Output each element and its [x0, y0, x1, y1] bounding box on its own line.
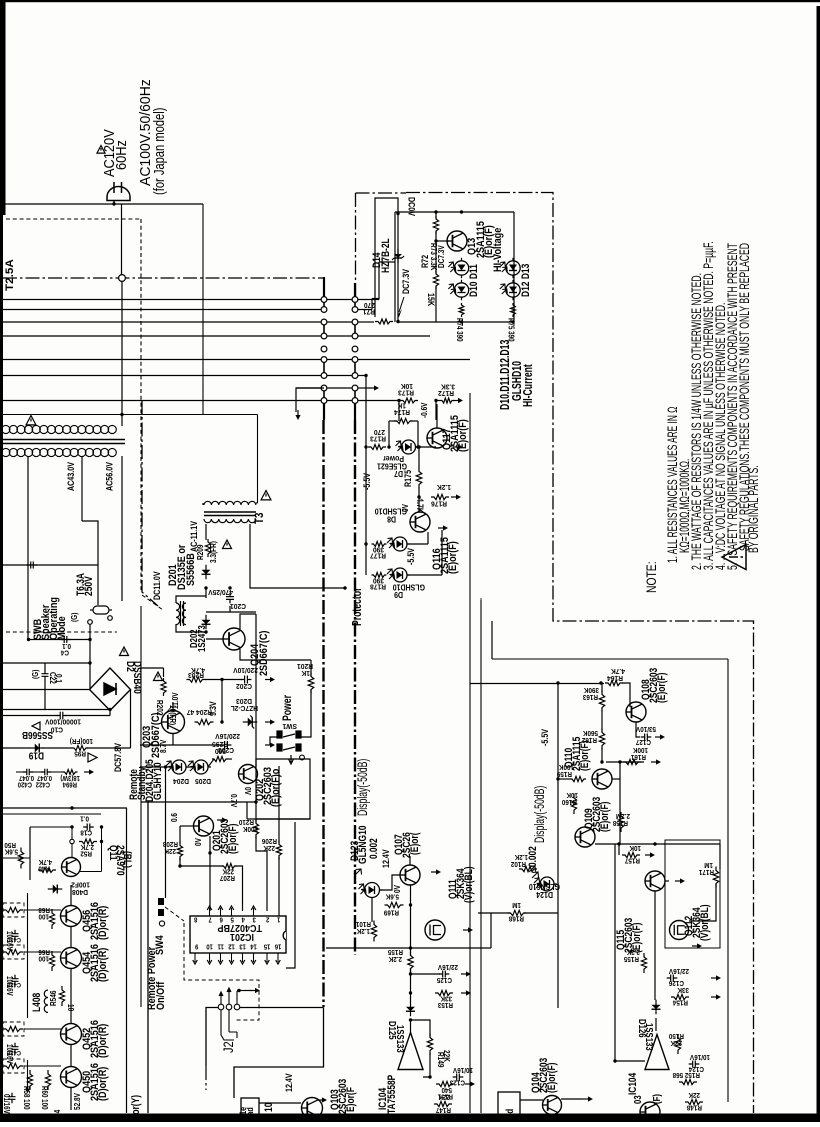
transistor Q201 2SC2603	[194, 816, 214, 836]
svg-text:R152 568: R152 568	[672, 1071, 700, 1078]
transformer T1 primary winding	[2, 425, 117, 433]
svg-text:100: 100	[38, 954, 49, 961]
wire q col vertical a	[70, 885, 72, 906]
capacitor C422 0.047	[41, 769, 51, 776]
callout arrowhead	[398, 309, 403, 317]
transformer T3 core2	[204, 515, 256, 517]
wire dashed box r1	[3, 903, 24, 917]
wire r168 row b	[524, 912, 558, 914]
resistor R155 2.2K	[641, 953, 646, 973]
switch SW4 contacts	[158, 898, 165, 926]
svg-text:D408: D408	[72, 888, 88, 897]
svg-text:250V: 250V	[83, 576, 95, 596]
bus wire right r9	[358, 400, 398, 402]
svg-text:R150: R150	[669, 1032, 684, 1039]
resistor R168 1M	[508, 910, 527, 915]
svg-text:R206: R206	[262, 837, 277, 844]
svg-text:0.7V: 0.7V	[229, 794, 239, 807]
svg-text:390K: 390K	[584, 686, 599, 693]
wire q109 emitter row	[595, 843, 720, 845]
bus wire mid 3	[327, 335, 352, 337]
resistor R208 22K	[177, 842, 182, 861]
connector col2 stub bottom	[354, 404, 356, 421]
IC201 pin arrow bottom 13	[240, 960, 245, 964]
connector pad col2 row3	[352, 319, 358, 325]
block box B2 load	[498, 1092, 520, 1122]
wire x470 vertical	[469, 393, 471, 1113]
svg-text:R694: R694	[62, 780, 77, 787]
bus wire mid 6	[327, 387, 352, 389]
wire chassis dash-dot	[3, 277, 324, 279]
svg-text:R147: R147	[436, 1106, 451, 1113]
svg-text:6: 6	[219, 915, 223, 923]
IC201 pin arrow bottom 16	[276, 960, 281, 964]
connector pad col1 row4	[321, 333, 327, 339]
svg-text:15: 15	[263, 942, 270, 950]
terminal C202	[265, 677, 275, 682]
wire sec AC56 drop	[121, 456, 123, 601]
wire dashed speaker mode	[6, 631, 117, 633]
wire sec AC43 jog	[82, 521, 98, 605]
wire R161 row	[606, 761, 644, 763]
LED D8 GLSHD10	[390, 537, 410, 551]
boundary dash-dot left col	[322, 420, 324, 1007]
svg-text:D126: D126	[637, 1019, 648, 1038]
wire LED box right	[513, 212, 515, 322]
transistor Q109 2SC2603	[575, 827, 595, 847]
svg-text:2: 2	[266, 915, 270, 923]
svg-text:2.2M: 2.2M	[616, 812, 630, 819]
inductor L408	[44, 990, 48, 1013]
svg-text:D7: D7	[394, 469, 403, 479]
svg-text:(E)or(: (E)or(	[409, 832, 421, 855]
terminal c126	[711, 975, 721, 980]
wire bridge right drop	[130, 690, 132, 749]
wire row 715 a	[3, 715, 58, 717]
LED D204	[169, 760, 189, 774]
junction box bottom right	[511, 320, 514, 323]
connector col1 stub bottom	[323, 404, 325, 421]
wire q11 right rail	[101, 827, 103, 872]
svg-text:100F2: 100F2	[71, 880, 90, 889]
resistor R204 47	[195, 719, 214, 724]
connector pad col2 row9	[352, 398, 358, 404]
resistor R177 390	[372, 542, 387, 547]
svg-text:100(FR): 100(FR)	[70, 737, 93, 744]
connector col2 link r3-r4	[354, 325, 356, 333]
svg-text:DC0V: DC0V	[406, 197, 416, 217]
transistor Q454 2SA1516	[61, 948, 82, 969]
resistor R95 100FR	[72, 746, 88, 751]
junction R176 node	[417, 495, 420, 498]
wire row 565	[3, 564, 98, 566]
terminal q115 emitter	[675, 878, 685, 883]
bus wire left 4	[3, 335, 321, 337]
transistor Q456 2SA1516	[61, 906, 82, 927]
wire T1 feed drop	[121, 415, 123, 427]
block box B1 load	[241, 1098, 259, 1122]
junction x620 r161	[618, 760, 621, 763]
LED D124 GLSN610	[537, 877, 557, 891]
LED D9 GLSHD10	[390, 568, 410, 582]
LED D123 GL5NG10	[362, 883, 383, 898]
wire r210 col a	[255, 802, 257, 822]
svg-text:540: 540	[441, 1086, 452, 1093]
wire c22 col a	[44, 663, 46, 670]
connector col2 link r6-r7	[354, 363, 356, 373]
svg-text:5: 5	[230, 915, 234, 923]
transformer T201 right winding	[182, 603, 186, 625]
bus wire mid 1	[327, 299, 352, 301]
wire Q204 collector	[240, 614, 256, 629]
resistor R101 1.2K	[371, 921, 376, 942]
wire sec AC43 drop	[81, 456, 83, 521]
junction box top mid	[460, 210, 463, 213]
wire x491 vertical	[490, 913, 492, 948]
svg-text:C428: C428	[7, 981, 21, 988]
wire R164 to Q108 base	[622, 683, 630, 707]
wire row 802	[141, 801, 256, 803]
svg-text:TA75558P: TA75558P	[386, 1074, 398, 1114]
wire Q116 base drop	[427, 532, 429, 544]
transistor Q116 2SA1115	[410, 512, 430, 532]
terminal r157	[645, 852, 655, 857]
terminal q201 collector	[217, 817, 227, 822]
svg-text:DC7.3V: DC7.3V	[436, 245, 446, 268]
svg-text:Display(-50dB): Display(-50dB)	[533, 786, 547, 843]
connector pad col2 row6	[352, 357, 358, 363]
svg-text:C202: C202	[236, 682, 252, 691]
wire LED chain	[186, 766, 194, 768]
svg-text:15K: 15K	[426, 293, 436, 306]
wire r210 to pin2	[256, 836, 267, 911]
wire q201 base col	[179, 826, 181, 843]
transformer T3 secondary	[204, 519, 256, 523]
junction R173 node	[434, 399, 437, 402]
wire bridge bottom drop	[109, 711, 111, 716]
connector pad col1 row3	[321, 319, 327, 325]
transformer T3 primary	[204, 501, 256, 505]
svg-text:R153: R153	[438, 1001, 453, 1008]
svg-text:R173: R173	[370, 434, 386, 443]
wire Q204 emitter	[240, 649, 311, 660]
arrow down q202	[289, 755, 294, 764]
svg-text:13: 13	[239, 942, 246, 950]
bus wire mid 5	[327, 375, 352, 377]
wire row 640	[28, 639, 90, 641]
wire q11 base col	[71, 827, 73, 858]
connector pad col2 row7	[352, 373, 358, 379]
svg-text:22K: 22K	[438, 1093, 450, 1100]
resistor R73 3.3K	[433, 216, 438, 234]
wire q107 up	[409, 856, 411, 865]
capacitor C10 marker	[56, 712, 67, 720]
capacitor C428	[12, 975, 19, 986]
svg-text:11: 11	[217, 942, 224, 950]
svg-text:1.2K: 1.2K	[515, 853, 528, 860]
svg-text:R210: R210	[239, 818, 254, 825]
boundary dash-dot T3 area	[142, 400, 158, 606]
junction D7 left	[387, 445, 390, 448]
wire boundary top edge start	[356, 192, 407, 194]
svg-text:01/16V: 01/16V	[2, 1094, 11, 1114]
svg-text:53/10V: 53/10V	[636, 725, 656, 732]
wire q col vertical c	[70, 969, 72, 1024]
svg-text:(for Japan model): (for Japan model)	[151, 108, 168, 195]
wire q201 emitter drop	[209, 836, 211, 911]
svg-text:(V)or(BL): (V)or(BL)	[463, 866, 475, 903]
capacitor C430	[12, 930, 19, 941]
svg-text:R177: R177	[370, 551, 386, 560]
resistor R210 100K	[253, 820, 258, 839]
resistor R40 4.7K	[38, 868, 56, 873]
wire row 814	[3, 813, 101, 815]
wire D14 to R71 node	[397, 266, 399, 322]
wire d125 to r149	[411, 1020, 431, 1036]
wire sw1 to sw4	[165, 767, 167, 898]
svg-text:DSSB40: DSSB40	[131, 661, 143, 694]
resistor R171 1M	[713, 867, 718, 888]
IC201 pin stub top x231.5	[231, 908, 233, 916]
capacitor C18 0.1	[83, 824, 94, 831]
wire c22 col b	[44, 680, 46, 710]
connector pad col2 row5	[352, 346, 358, 352]
svg-text:-5.5V: -5.5V	[362, 472, 372, 490]
resistor R164 4.7K	[605, 680, 623, 685]
wire dashed box r2	[3, 945, 24, 959]
svg-text:(E)or(F): (E)or(F)	[227, 824, 239, 854]
terminal Q116 emitter	[438, 525, 448, 530]
svg-text:0.1: 0.1	[54, 674, 64, 683]
svg-text:22K: 22K	[688, 1091, 700, 1098]
transistor Q450 2SA1516	[61, 1067, 82, 1088]
wire q col vertical b	[70, 927, 72, 948]
wire T1 bottom left	[27, 563, 29, 640]
boundary dash-dot display box	[406, 193, 754, 1114]
connector pad col1 row2	[321, 307, 327, 313]
junction q115 y844	[653, 842, 656, 845]
transformer T201 core b	[183, 601, 185, 626]
wire LED box left a	[435, 212, 437, 219]
resistor R172 3.3K	[440, 398, 454, 403]
wire R203 to C202	[205, 679, 242, 681]
junction R71 node	[396, 320, 399, 323]
junction q201 emitter	[208, 851, 211, 854]
svg-text:R546: R546	[48, 990, 58, 1006]
svg-text:1M: 1M	[704, 861, 713, 868]
junction R204 right	[220, 720, 223, 723]
svg-text:9: 9	[195, 942, 199, 950]
warning triangle R209	[223, 540, 232, 549]
wire d123 down	[371, 898, 373, 923]
wire Q204 base	[206, 638, 224, 640]
junction T1 feed	[120, 413, 123, 416]
wire T3 sec left	[205, 524, 207, 540]
svg-text:52.8V: 52.8V	[72, 1093, 82, 1110]
boundary dash-dot right col	[354, 420, 356, 955]
junction d125 out	[409, 1018, 412, 1021]
svg-text:R154: R154	[673, 998, 688, 1005]
terminal r153	[461, 990, 471, 995]
svg-text:AC56.0V: AC56.0V	[105, 462, 115, 491]
junction bridge bottom	[108, 708, 111, 711]
svg-text:C126: C126	[669, 979, 684, 986]
wire Q117 collector	[436, 404, 438, 428]
junction circle on dash-dot	[119, 275, 126, 282]
resistor R694 18 3W	[63, 770, 78, 775]
wire T1 top feed	[3, 414, 258, 416]
svg-text:1.2K: 1.2K	[436, 483, 451, 492]
terminal q103 right	[317, 1097, 327, 1102]
wire pin16 route	[286, 822, 295, 968]
capacitor C22 0.1	[42, 670, 49, 681]
wire R175 to node	[418, 488, 420, 497]
bus wire right r2	[358, 309, 372, 311]
bus wire left 5	[3, 359, 321, 361]
bus wire right r7	[358, 375, 366, 377]
terminal r694	[84, 769, 94, 774]
wire q104 collector	[561, 1098, 583, 1100]
junction x615 opamp	[613, 1059, 616, 1062]
wire R173 drop	[435, 401, 437, 421]
resistor R209 3.3(FR)	[205, 539, 210, 557]
terminal r154	[711, 994, 721, 999]
svg-text:03: 03	[632, 1095, 643, 1104]
svg-text:22K: 22K	[263, 844, 275, 851]
resistor R150 22K	[675, 1034, 680, 1054]
transistor Q110 2SA1115	[592, 769, 612, 789]
wire dashed sw4 link	[165, 907, 184, 921]
wire row 948	[326, 947, 491, 949]
connector pad col1 row1	[321, 297, 327, 303]
capacitor C203 220/16V	[221, 741, 232, 749]
wire D201 node	[205, 588, 207, 598]
IC201 pin stub bottom 12	[231, 953, 233, 962]
resistor R74 390	[459, 303, 464, 317]
IC201 pin arrow top x231.5	[229, 906, 234, 910]
bus wire left 2	[3, 309, 321, 311]
wire row 715 b	[65, 715, 110, 717]
wire r206 col a	[278, 766, 280, 843]
svg-text:Power: Power	[282, 695, 295, 721]
terminal c127	[655, 734, 665, 739]
callout line 11.0V	[166, 706, 172, 713]
bus wire r1-r2 link	[372, 298, 379, 300]
wire T3 top right lead	[256, 502, 258, 504]
transistor Q108 2SC2603	[626, 702, 646, 722]
junction q col r153	[409, 991, 412, 994]
terminal circle q202	[300, 755, 305, 760]
svg-text:(D)or(R): (D)or(R)	[97, 906, 109, 940]
wire T3 loop right	[257, 415, 259, 504]
connector col1 link r6-r7	[323, 363, 325, 373]
svg-text:R161: R161	[631, 753, 646, 760]
wire feed into box	[379, 261, 395, 263]
lightning arrows D124	[529, 866, 539, 878]
resistor R161 100K	[623, 759, 641, 764]
junction box bottom left	[460, 320, 463, 323]
wire r208 to junction	[179, 858, 181, 866]
wire r171 to q112	[689, 884, 716, 921]
terminal q107 collector	[431, 869, 441, 874]
connector pad col1 row9	[321, 398, 327, 404]
connector col1 link r8-r9	[323, 391, 325, 398]
svg-text:R207: R207	[220, 874, 235, 881]
junction rail y683 b	[599, 681, 602, 684]
svg-text:0.1: 0.1	[62, 642, 71, 649]
AC plug P1	[107, 182, 130, 204]
wire dashed sw4 to j2	[184, 923, 259, 1020]
fuse relay F601 symbol	[88, 606, 113, 624]
junction row640 left	[27, 638, 30, 641]
IC201 pin arrow top x220.5	[218, 906, 223, 910]
resistor R50 5.6K	[18, 848, 23, 869]
wire row 1029	[24, 1028, 61, 1030]
svg-text:oad: oad	[245, 1107, 255, 1120]
bus wire mid 2	[327, 321, 352, 323]
wire D14 wrap route	[375, 198, 398, 317]
svg-text:D8: D8	[386, 514, 396, 524]
svg-text:7: 7	[208, 915, 212, 923]
svg-text:(E)or(F): (E)or(F)	[579, 741, 591, 771]
transistor Q115 2SC2603	[645, 871, 665, 891]
svg-text:HZ7B-2L: HZ7B-2L	[380, 238, 392, 273]
svg-text:10K: 10K	[566, 791, 578, 798]
wire q110 emitter right	[612, 778, 620, 780]
transistor Q112 2SK364	[670, 921, 689, 940]
svg-text:0.002: 0.002	[368, 838, 380, 859]
wire x126 vertical	[126, 808, 128, 1113]
bus wire right r1	[358, 299, 379, 301]
wire row 952	[24, 951, 61, 953]
wire SW1 left	[270, 737, 277, 745]
svg-text:R95: R95	[74, 749, 86, 756]
junction row663	[88, 661, 91, 664]
resistor R176 1.2K	[431, 494, 449, 499]
transistor Q103 2SC2603	[302, 1098, 323, 1119]
bus wire left 1	[3, 299, 321, 301]
wire row 772	[16, 771, 24, 773]
svg-text:R148: R148	[687, 1103, 702, 1110]
svg-text:12.4V: 12.4V	[284, 1073, 294, 1092]
wire b2 to q104	[520, 1099, 543, 1101]
resistor R174 1K	[394, 418, 413, 423]
wire x558 to r159	[558, 778, 570, 780]
wire T3 sec right	[250, 524, 345, 588]
LED D7 GL5E621	[399, 440, 419, 454]
wire J2 left drop	[206, 1008, 218, 1067]
svg-text:1M: 1M	[512, 901, 521, 908]
LED D205	[191, 760, 211, 774]
wire x615 vertical	[614, 844, 616, 1061]
wire LED box outer left	[394, 212, 396, 322]
op-amp IC104 TA75558P	[398, 1033, 423, 1070]
svg-text:100: 100	[38, 912, 49, 919]
capacitor C123 10/16V	[453, 1074, 464, 1081]
capacitor at row 565	[27, 562, 38, 569]
resistor R169 5.6K	[385, 902, 404, 907]
connector pad col1 row5	[321, 346, 327, 352]
junction row802	[254, 800, 257, 803]
svg-text:4.7K: 4.7K	[39, 858, 52, 865]
svg-text:HZ7C-2L: HZ7C-2L	[230, 704, 258, 713]
resistor R102 1.2K	[519, 866, 537, 871]
connector J2 bracket	[221, 1010, 237, 1040]
svg-text:C18: C18	[80, 828, 92, 835]
transformer T201 left winding	[176, 603, 180, 625]
svg-text:(E)or(F)o: (E)or(F)o	[270, 769, 282, 807]
lightning arrows D123	[355, 869, 362, 875]
